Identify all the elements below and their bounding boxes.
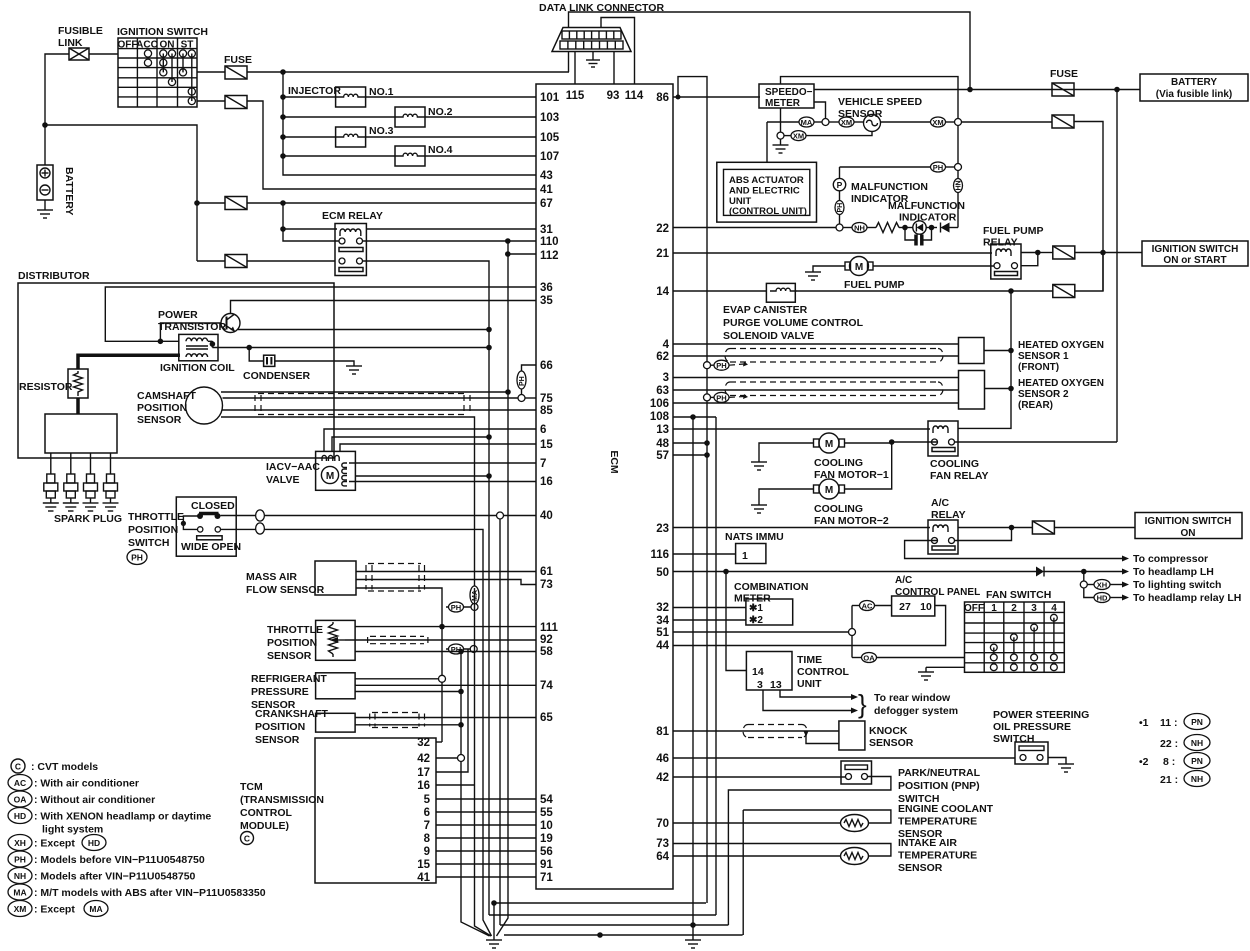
svg-text:11 :: 11 : [1160,717,1178,729]
node battery junction [42,122,48,128]
svg-text:FUSE: FUSE [224,54,252,66]
legend XM [8,901,32,917]
svg-text:ON: ON [160,40,175,51]
wire compressor [905,541,1122,559]
svg-text:ON: ON [1181,528,1196,539]
SECTION: left middle sensors [127,429,536,936]
svg-text:ABS ACTUATOR: ABS ACTUATOR [729,175,804,186]
svg-text:: Except: : Except [34,904,75,916]
legend NH [8,868,32,884]
pin 51 row to AC circle [673,631,849,633]
wire pin 86 to speedometer [673,96,760,98]
svg-text:73: 73 [656,838,669,850]
shield TP sensor cable [368,636,428,643]
svg-text:66: 66 [540,360,553,372]
svg-text:DISTRIBUTOR: DISTRIBUTOR [18,270,90,282]
battery BAT [37,165,53,200]
cooling fan motor 2 [819,479,839,499]
svg-text:SPEEDO−: SPEEDO− [765,87,813,98]
svg-text:73: 73 [540,579,553,591]
svg-text:A/C: A/C [931,497,950,509]
wire relay to fuse node [1021,253,1038,266]
wire TCM 42 [436,757,458,759]
wire IACV supply branch [332,437,489,451]
svg-text:42: 42 [656,772,669,784]
svg-text:PARK/NEUTRAL: PARK/NEUTRAL [898,767,981,779]
svg-text:MALFUNCTION: MALFUNCTION [851,181,928,193]
svg-text:51: 51 [656,627,669,639]
svg-text:: Models before VIN−P11U054875: : Models before VIN−P11U0548750 [34,854,205,866]
pin66 connector chain [522,365,537,371]
wire TPS closed to pin 40 [221,515,497,517]
svg-text:PN: PN [1191,756,1203,766]
svg-text:POSITION: POSITION [255,721,305,733]
PH row 167 [840,166,931,168]
svg-text:TEMPERATURE: TEMPERATURE [898,816,977,828]
svg-text:46: 46 [656,753,669,765]
svg-text:AND ELECTRIC: AND ELECTRIC [729,186,800,197]
svg-text:RELAY: RELAY [983,237,1018,249]
wire fuse F1 to DLC supply node [247,71,569,73]
svg-text:8: 8 [424,833,431,845]
svg-text:86: 86 [656,92,669,104]
svg-text:FAN MOTOR−2: FAN MOTOR−2 [814,515,889,527]
svg-text:FLOW SENSOR: FLOW SENSOR [246,584,325,596]
svg-text:SENSOR 2: SENSOR 2 [1018,389,1069,400]
distributor cap [45,414,117,453]
wire ign ST row to fuse F2 [197,100,225,102]
wire pin86 loop to main bus 707 [678,77,707,903]
wire coil secondary thick [78,355,180,369]
svg-text:41: 41 [417,872,430,884]
wire pin35 to transistor collector [231,301,537,314]
fuse F9 [1032,521,1054,534]
wire battery bus [45,125,197,261]
svg-text:105: 105 [540,132,560,144]
svg-text:P: P [837,180,843,190]
svg-text:XM: XM [841,118,852,127]
wire fuse F3 to ECM pin 67 [247,202,536,204]
pin 4 row [673,343,959,345]
svg-text:54: 54 [540,794,553,806]
svg-text:41: 41 [540,184,553,196]
svg-text:HN: HN [956,180,963,190]
svg-text:93: 93 [607,90,620,102]
svg-text:XM: XM [14,904,27,914]
svg-text:•2: •2 [1139,756,1149,768]
svg-text:(FRONT): (FRONT) [1018,362,1059,373]
svg-text:48: 48 [656,438,669,450]
svg-text:FUEL PUMP: FUEL PUMP [983,225,1043,237]
svg-text:(REAR): (REAR) [1018,400,1053,411]
svg-text:light system: light system [42,824,103,836]
SECTION: right top [673,68,1248,903]
svg-text:IGNITION COIL: IGNITION COIL [160,362,235,374]
vehicle speed sensor VSS [864,115,881,132]
wire MAF ground down [356,588,442,742]
svg-text:7: 7 [540,458,546,470]
fuse F3 [225,197,247,210]
diode headlamp [1036,567,1044,577]
wire IACV to pin 15 [340,444,536,451]
wire ign ON row to fuse F1 [197,71,225,73]
svg-text:PH: PH [519,376,526,386]
PH drain HO2S1 [704,362,711,369]
wire fusible link to ignition switch [89,53,118,55]
spark plug 1 [43,453,59,511]
svg-text:21 :: 21 : [1160,774,1178,786]
spark plug 3 [83,453,99,511]
svg-text:HD: HD [14,811,26,821]
wire DLC data line to battery fuse node [569,12,971,89]
svg-text:POSITION: POSITION [128,524,178,536]
vertical 958 chain [957,126,959,164]
svg-text:42: 42 [417,753,430,765]
svg-text:: Except: : Except [34,838,75,850]
fan switch ground row [926,666,965,668]
node fuse F3 out [280,200,286,206]
svg-text:115: 115 [566,90,585,102]
svg-text:HEATED OXYGEN: HEATED OXYGEN [1018,340,1104,351]
legend HD [8,808,32,824]
ignition switch on box [1135,513,1242,539]
svg-text:COOLING: COOLING [814,457,863,469]
svg-text:POSITION: POSITION [137,402,187,414]
svg-text:PN: PN [1191,717,1203,727]
svg-text:3: 3 [757,679,763,691]
svg-text:KNOCK: KNOCK [869,725,908,737]
svg-text:SENSOR: SENSOR [898,862,943,874]
svg-text:61: 61 [540,566,553,578]
wire TP sensor to pin 111 [355,626,536,628]
svg-text:4: 4 [1051,603,1057,614]
svg-text:NH: NH [1191,738,1203,748]
svg-text:58: 58 [540,646,553,658]
bottom bus y935 [504,934,743,936]
SECTION: data link connector [539,2,970,89]
svg-text:CONTROL: CONTROL [797,666,849,678]
AC branch up [851,606,853,629]
svg-text:CONTROL: CONTROL [240,807,292,819]
svg-text:: M/T models with ABS after VI: : M/T models with ABS after VIN−P11U0583… [34,887,266,899]
ground ECM second [692,925,694,940]
svg-text:METER: METER [765,98,801,109]
SECTION: injectors and ECM relay [280,72,536,523]
svg-text:107: 107 [540,151,559,163]
wire IACV to pin 6 [324,429,536,451]
fuse F7 [1053,246,1075,259]
pin 48 stub [673,442,707,444]
svg-text:111: 111 [540,622,559,634]
legend MA [8,884,32,900]
svg-text:114: 114 [625,90,644,102]
svg-text:14: 14 [656,286,669,298]
svg-text:C: C [15,762,21,772]
shield MAF cable [366,564,425,592]
svg-text:56: 56 [540,846,553,858]
svg-text:HD: HD [88,838,100,848]
svg-text:BATTERY: BATTERY [63,167,75,215]
wire crank sensor return [355,724,461,726]
pin 42 row PNP switch [673,776,845,778]
TCM box [315,738,436,883]
wire TCM 9 to ECM 56 [436,850,536,852]
pin 14 row EVAP [673,290,766,292]
capacitor branch [905,228,915,241]
spark plug 4 [103,453,119,511]
svg-text:✱1: ✱1 [749,603,763,614]
svg-text:NO.4: NO.4 [428,144,453,156]
wire pin 112 tap [508,253,536,255]
svg-text:PH: PH [933,163,943,172]
wire DLC to ECM pin 114 [601,18,635,85]
wire IACV coil mid branch [355,475,489,477]
svg-text:(TRANSMISSION: (TRANSMISSION [240,794,324,806]
svg-text:10: 10 [920,601,932,613]
svg-text:16: 16 [417,780,430,792]
svg-text:32: 32 [656,602,669,614]
svg-text:TIME: TIME [797,654,822,666]
svg-text:ECM: ECM [608,450,620,474]
svg-text:81: 81 [656,726,669,738]
wire TCM 6 to ECM 55 [436,811,536,813]
svg-text:: With XENON headlamp or dayti: : With XENON headlamp or daytime [34,811,211,823]
svg-text:EVAP CANISTER: EVAP CANISTER [723,304,808,316]
svg-text:XH: XH [1097,581,1107,590]
pin 44 row to panel [673,606,946,646]
svg-text:POWER: POWER [158,309,198,321]
injector NO.1 [283,96,336,98]
wire coil output [208,340,212,342]
legend C [11,759,25,773]
svg-text:110: 110 [540,236,559,248]
svg-text:UNIT: UNIT [797,678,822,690]
wire fuse F2 to ECM pin 41 [247,101,536,189]
svg-text:92: 92 [540,634,553,646]
wire DLC to ECM pin 115 [574,52,576,85]
svg-text:defogger system: defogger system [874,705,958,717]
svg-text:A/C: A/C [895,575,912,586]
bus relay contact2 down [488,523,490,915]
svg-text:23: 23 [656,523,669,535]
battery via fusible link box [1140,74,1248,101]
svg-text:15: 15 [540,439,553,451]
heated oxygen sensor 2 [959,371,985,410]
VSS row A [767,121,799,123]
svg-text:XM: XM [793,132,804,141]
bottom bus y903 [494,902,706,904]
svg-text:IGNITION SWITCH: IGNITION SWITCH [1152,244,1239,255]
svg-text:NH: NH [1191,774,1203,784]
svg-text:MA: MA [89,904,102,914]
svg-text:5: 5 [424,794,431,806]
node fuse F1 out [280,69,286,75]
svg-text:POSITION (PNP): POSITION (PNP) [898,780,980,792]
wire refrigerant supply [355,678,438,680]
fuse F4 [225,255,247,268]
svg-text:FUEL PUMP: FUEL PUMP [844,279,904,291]
svg-text:2: 2 [1011,603,1017,614]
bottom bus y915 [489,914,716,916]
svg-text:MODULE): MODULE) [240,820,289,832]
svg-text:IGNITION SWITCH: IGNITION SWITCH [117,26,208,38]
svg-text:THROTTLE: THROTTLE [267,624,323,636]
svg-text:9: 9 [424,846,430,858]
pin 62 row [673,355,959,357]
pin 21 row to fuel pump relay [673,252,992,254]
svg-text:43: 43 [540,170,553,182]
svg-text:75: 75 [540,393,553,405]
wire TCM 32 [436,741,442,743]
svg-text:PH: PH [716,393,726,402]
bus 716 down [715,417,717,915]
PNP return [728,777,891,926]
svg-text:34: 34 [656,615,669,627]
svg-text:106: 106 [650,398,669,410]
SECTION: top-left power [37,25,569,268]
wire fuse F3 branch down to relay contact1 [283,203,339,241]
svg-text:ON or START: ON or START [1163,255,1226,266]
svg-text:OFF: OFF [118,40,138,51]
svg-text:32: 32 [417,737,430,749]
SECTION: legend [8,759,266,917]
ECM right pin labels [650,92,670,863]
svg-text:NH: NH [854,224,865,233]
SECTION: right middle [673,291,1242,925]
svg-text:INDICATOR: INDICATOR [899,212,957,224]
ABS actuator unit [766,122,768,162]
spark plug 2 [63,453,79,511]
connector PH row 646 [446,648,470,650]
TCM pin labels [417,737,430,884]
svg-text:SWITCH: SWITCH [128,537,169,549]
pin 50 headlamp row [673,571,1036,573]
cooling fan motor 1 [819,433,839,453]
fuse F2 [225,96,247,109]
wire TCM 15 to ECM 91 [436,863,536,865]
svg-text:POSITION: POSITION [267,637,317,649]
cooling fan relay [928,421,958,456]
ECM left pin labels [540,92,560,884]
svg-text:1: 1 [742,550,748,562]
svg-text:15: 15 [417,859,430,871]
svg-text:POWER STEERING: POWER STEERING [993,709,1089,721]
wire TP sensor wiper to pin 92 [345,639,536,641]
svg-text:•1: •1 [1139,717,1149,729]
svg-text:IACV−AAC: IACV−AAC [266,461,320,473]
shield HO2S1 cable [725,349,943,363]
svg-text:PRESSURE: PRESSURE [251,686,309,698]
svg-text:6: 6 [424,807,430,819]
park neutral position switch [841,761,872,784]
bus pin40 down [499,519,501,925]
svg-text:101: 101 [540,92,560,104]
svg-text:M: M [855,262,863,273]
svg-text:: Without air conditioner: : Without air conditioner [34,794,155,806]
svg-text:91: 91 [540,859,553,871]
svg-text:1: 1 [991,603,997,614]
ECM U1 [536,84,673,889]
wire cam sensor shield drain [221,417,475,588]
wire TCM 41 to ECM 71 [436,876,536,878]
ground battery [44,200,46,210]
svg-text:SWITCH: SWITCH [993,733,1034,745]
pin 32 row [673,607,746,609]
svg-text:WIDE OPEN: WIDE OPEN [181,541,241,553]
wire refrigerant return [355,691,461,693]
injector supply bus [283,72,536,175]
svg-text:14: 14 [752,666,764,678]
legend XH [8,835,32,851]
ground ECM main [493,903,495,940]
svg-text:PH: PH [451,603,461,612]
svg-text:PH: PH [837,203,844,213]
combination meter riser [726,572,746,671]
svg-text:6: 6 [540,424,546,436]
shield crank sensor cable [370,713,425,728]
svg-text:MASS AIR: MASS AIR [246,571,297,583]
svg-text:}: } [858,689,867,719]
ground speedometer [773,144,789,146]
svg-text:SENSOR: SENSOR [137,414,182,426]
svg-text:C: C [244,834,250,844]
pin 3 row [673,377,959,379]
wire bus to fuse F4 [197,260,225,262]
svg-text:ACC: ACC [136,40,158,51]
svg-text:(Via fusible link): (Via fusible link) [1156,89,1233,100]
wire speedometer output to VSS row [814,102,826,119]
OA branch down [851,636,853,658]
svg-text:7: 7 [424,820,430,832]
svg-text:SPARK PLUG: SPARK PLUG [54,513,122,525]
svg-text:31: 31 [540,224,553,236]
svg-text:MA: MA [472,590,479,601]
fuse F8 [1053,285,1075,298]
pin 63 row [673,389,959,391]
svg-text:INTAKE AIR: INTAKE AIR [898,837,957,849]
svg-text:70: 70 [656,818,669,830]
svg-text:✱2: ✱2 [749,615,763,626]
wire fuse F4 to ECM relay contact [247,260,335,262]
svg-text:13: 13 [770,679,782,691]
wire relay contact1 to pin 110 [363,240,536,242]
svg-text:OIL PRESSURE: OIL PRESSURE [993,721,1071,733]
svg-text:M: M [825,439,833,450]
svg-text:MALFUNCTION: MALFUNCTION [888,200,965,212]
svg-text:NO.3: NO.3 [369,125,394,137]
svg-text:NH: NH [14,871,26,881]
svg-text:TEMPERATURE: TEMPERATURE [898,850,977,862]
ground condenser [275,361,354,366]
svg-text:FAN RELAY: FAN RELAY [930,470,989,482]
svg-text:AC: AC [14,778,26,788]
svg-text:85: 85 [540,405,553,417]
wire IACV to pin 16 [349,481,536,483]
svg-text:To headlamp relay LH: To headlamp relay LH [1133,592,1241,604]
cooling fan relay contact wires [892,441,938,443]
svg-text:FAN SWITCH: FAN SWITCH [986,589,1051,601]
svg-text:OA: OA [14,795,27,805]
pin 46 row to PS switch [673,757,1015,759]
svg-text:XM: XM [932,118,943,127]
wire MAF to pin 73 [356,580,536,585]
wire cam sensor supply [221,391,508,393]
svg-text:65: 65 [540,712,553,724]
resistor malfunction [876,223,899,233]
svg-text:8 :: 8 : [1163,756,1175,768]
svg-text:SENSOR: SENSOR [869,737,914,749]
svg-text:27: 27 [899,601,911,613]
